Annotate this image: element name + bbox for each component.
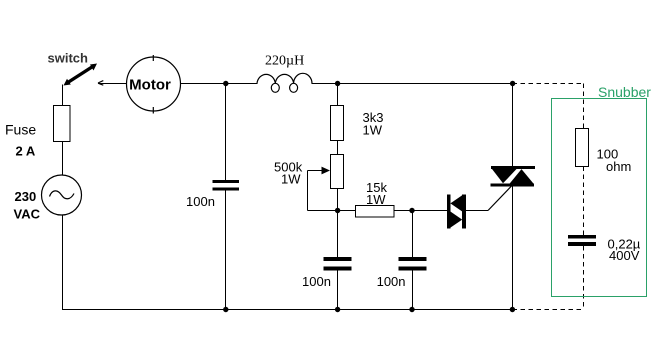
wire: C1 branch upper [225, 84, 227, 181]
svg-text:100n: 100n [302, 274, 331, 289]
arrowhead: open contact arrow at motor wire end [98, 81, 103, 86]
wire: R1 to P1 [337, 141, 339, 155]
wire: AC source to bottom rail [62, 215, 64, 310]
wire: dashed snubber vertical lower [583, 246, 585, 310]
wire: bottom rail [62, 309, 513, 311]
resistor R3 100 ohm body [576, 129, 589, 167]
AC source V1 [42, 175, 82, 215]
wire: top rail to R1 [337, 84, 339, 106]
svg-text:Fuse: Fuse [5, 122, 36, 138]
wire: fuse to AC source [62, 142, 64, 176]
wire: C3 branch upper [412, 211, 414, 258]
junction: bottom rail / C3 [409, 307, 414, 312]
junction: top rail / triac [510, 81, 515, 86]
snubber box outline [552, 99, 647, 297]
inductor L1 220uH [257, 73, 312, 92]
capacitor C3 100n [399, 257, 427, 271]
wire: left rail switch to fuse [62, 85, 64, 106]
svg-text:220µH: 220µH [265, 54, 304, 69]
wire: P1 bottom to C2 [337, 189, 339, 258]
wire: node to R2 [338, 210, 356, 212]
svg-text:1W: 1W [281, 172, 301, 187]
wire: dashed snubber vertical upper [583, 84, 585, 129]
wire: dashed top link to snubber [513, 83, 584, 85]
resistor R1 3k3 body [331, 106, 344, 141]
wire: C1 branch lower [225, 191, 227, 310]
wire: wiper leg to node [308, 210, 338, 212]
wire: C2 to bottom rail [337, 271, 339, 310]
wire: gate diagonal to triac [488, 186, 512, 211]
svg-text:switch: switch [48, 51, 89, 66]
svg-text:1W: 1W [363, 122, 383, 137]
svg-text:Motor: Motor [129, 77, 171, 94]
wire: top rail inductor to triac branch [312, 83, 514, 85]
switch S1 blade [64, 64, 98, 86]
junction: wiper / R2 / C2 node [335, 208, 340, 213]
svg-text:Snubber: Snubber [598, 84, 651, 100]
diac D1 [447, 195, 466, 229]
wire: dashed bottom link to snubber [513, 309, 584, 311]
wire: triac top to rail [512, 84, 514, 167]
capacitor C4 snubber [568, 235, 596, 246]
svg-text:VAC: VAC [14, 207, 41, 222]
potentiometer P1 wiper arrow [308, 167, 331, 175]
svg-text:230: 230 [15, 189, 37, 204]
svg-text:400V: 400V [609, 248, 640, 263]
wire: diac to gate bend [466, 210, 488, 212]
junction: R2 / C3 node [409, 208, 414, 213]
wire: top rail arrow-end to motor [99, 83, 127, 85]
potentiometer P1 500k body [331, 155, 344, 189]
fuse F1 [54, 106, 71, 142]
wire: triac bottom to rail [512, 186, 514, 309]
junction: bottom rail / C1 [223, 307, 228, 312]
junction: bottom rail / triac [510, 307, 515, 312]
wire: top rail motor to inductor [181, 83, 258, 85]
wire: wiper down-leg [307, 171, 309, 211]
svg-text:ohm: ohm [606, 159, 631, 174]
motor M1 circle [127, 55, 181, 114]
junction: bottom rail / C2 [335, 307, 340, 312]
wire: dashed snubber vertical middle [583, 167, 585, 236]
triac T1 [491, 166, 535, 186]
wire: C3 to bottom rail [412, 271, 414, 310]
svg-text:1W: 1W [366, 192, 386, 207]
svg-text:2 A: 2 A [16, 144, 36, 159]
junction: top rail / R1 branch [335, 81, 340, 86]
wire: R2 to diac [394, 210, 447, 212]
capacitor C1 100n [213, 180, 240, 190]
resistor R2 15k body [356, 206, 395, 218]
svg-text:100n: 100n [377, 274, 406, 289]
svg-text:100n: 100n [186, 194, 215, 209]
capacitor C2 100n [324, 257, 352, 271]
junction: top rail / C1 [223, 81, 228, 86]
